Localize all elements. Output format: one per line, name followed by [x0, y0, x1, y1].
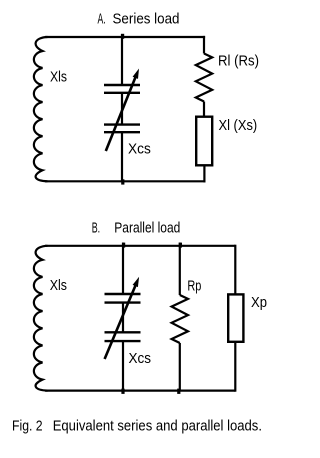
resistor Rp: [172, 295, 188, 343]
capacitor Xcs (A) upper pair plates: [104, 84, 140, 86]
wire: between capacitor pairs (A): [121, 93, 123, 125]
svg-text:Xls: Xls: [50, 70, 67, 86]
wire: A capacitor branch lower with junction tick: [121, 132, 123, 181]
title: B. Parallel load: [92, 221, 181, 237]
reactance box Xp: [228, 294, 243, 341]
variable-capacitor arrow (B): [105, 277, 140, 359]
svg-text:Xcs: Xcs: [128, 142, 151, 158]
capacitor Xcs (B) lower pair plates: [105, 331, 141, 333]
wire: B capacitor branch lower with junction tick: [122, 341, 124, 391]
capacitor Xcs (B) upper pair plates: [105, 293, 141, 295]
wire: Rp branch upper lead with junction tick: [179, 243, 181, 295]
svg-text:Xl (Xs): Xl (Xs): [219, 118, 258, 134]
wire: B capacitor branch upper with junction tick: [122, 243, 124, 294]
inductor Xls (circuit B coil): [34, 246, 48, 391]
svg-text:Xp: Xp: [251, 295, 267, 311]
wire: Xp branch upper lead: [234, 245, 236, 295]
svg-text:B.: B.: [92, 221, 100, 237]
svg-text:Xls: Xls: [50, 278, 67, 294]
svg-text:A.: A.: [98, 12, 106, 28]
wire: Rp branch lower lead with junction tick: [179, 343, 181, 391]
reactance box Xl (Xs): [196, 117, 212, 166]
wire: Xp branch lower lead: [234, 342, 236, 392]
wire: B bottom rail: [45, 390, 235, 392]
variable-capacitor arrow (A): [106, 69, 139, 152]
inductor Xls (circuit A coil): [34, 37, 48, 181]
svg-text:Xcs: Xcs: [129, 351, 152, 367]
svg-text:Rp: Rp: [187, 278, 201, 294]
wire: A top rail: [45, 36, 205, 38]
svg-text:Fig. 2: Fig. 2: [12, 419, 43, 435]
svg-text:Rl (Rs): Rl (Rs): [218, 54, 259, 70]
caption: Fig. 2 Equivalent series and parallel loads.: [12, 419, 262, 435]
wire: A capacitor branch upper with junction tick: [121, 34, 123, 85]
svg-text:Parallel load: Parallel load: [114, 221, 180, 237]
wire: B top rail: [45, 245, 235, 247]
svg-text:Series load: Series load: [113, 12, 180, 28]
wire: between capacitor pairs (B): [122, 303, 124, 333]
wire: A bottom rail: [45, 180, 206, 182]
capacitor Xcs (A) lower pair plates: [104, 123, 140, 125]
wire: box Xl to bottom rail: [203, 166, 205, 183]
wire: resistor to box Xl: [203, 102, 205, 118]
title: A. Series load: [98, 12, 180, 28]
wire: A right branch upper lead: [203, 36, 205, 54]
resistor Rl (Rs): [196, 54, 212, 102]
svg-text:Equivalent series and parallel: Equivalent series and parallel loads.: [53, 419, 262, 435]
